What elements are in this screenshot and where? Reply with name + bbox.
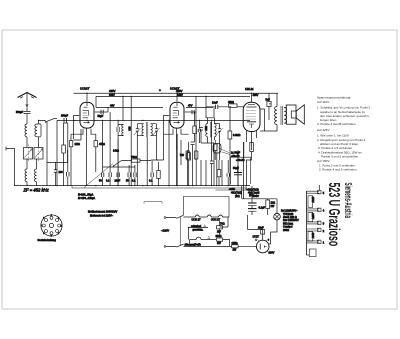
capacitor 150pF: [64, 118, 67, 123]
right text block: [317, 95, 371, 171]
AVC resistor: [213, 144, 217, 151]
svg-text:192V: 192V: [109, 94, 115, 97]
coil L2 secondary: [35, 124, 37, 137]
callout diagonal: [84, 164, 114, 189]
capacitor grid: [54, 170, 57, 172]
top rail 485V: [74, 92, 279, 94]
svg-text:43kΩ: 43kΩ: [228, 101, 234, 104]
svg-text:7: 7: [41, 225, 42, 227]
IFT1 core: [147, 122, 148, 137]
IFT2 right trimmer: [218, 129, 221, 131]
resistor mid2: [195, 151, 198, 159]
IFT1 connecting wires: [137, 124, 156, 136]
svg-text:0.1: 0.1: [149, 179, 153, 182]
svg-text:~220V: ~220V: [161, 229, 169, 233]
svg-text:1MΩ: 1MΩ: [75, 143, 80, 146]
wire: [57, 120, 64, 185]
svg-text:125Ω: 125Ω: [232, 242, 238, 245]
filter cap block outline: [231, 157, 251, 184]
svg-text:500pF: 500pF: [16, 111, 24, 114]
wire: [95, 96, 97, 107]
V1 side pins: [74, 116, 80, 140]
cap 0.1: [210, 161, 214, 164]
wire: [26, 137, 28, 147]
selector stub 4: [307, 209, 320, 211]
capacitor 50pF: [101, 110, 103, 114]
socket pin numbers: [41, 215, 62, 237]
mains switch: [177, 215, 184, 247]
resistor mid1: [186, 151, 189, 159]
capacitor C-g2: [192, 110, 194, 114]
svg-text:103V: 103V: [253, 194, 260, 198]
svg-text:150V: 150V: [311, 197, 314, 203]
tube V1 UCH2T envelope: [80, 102, 94, 128]
svg-text:Auf 150V:: Auf 150V:: [317, 159, 330, 163]
tube V2 internals: [174, 102, 178, 107]
B+ feed to transformer: [260, 93, 277, 131]
heater feed loop wire: [184, 197, 230, 218]
tube V1 internals: [84, 102, 88, 107]
svg-text:110V: 110V: [311, 233, 314, 239]
svg-text:1. Schaltbg. gez.Vo.Leitung vo: 1. Schaltbg. gez.Vo.Leitung von Punkt 2: [317, 105, 371, 109]
svg-text:2: 2: [58, 218, 59, 220]
capacitor row c4: [128, 173, 130, 178]
selector stub 5: [307, 191, 320, 193]
svg-text:M=106...220μA: M=106...220μA: [78, 197, 95, 200]
resistor low: [217, 170, 221, 177]
selector stub 3: [307, 222, 320, 224]
svg-text:75kΩ: 75kΩ: [131, 156, 137, 159]
svg-text:1. Wie unter 1. bei 110V: 1. Wie unter 1. bei 110V: [317, 133, 349, 137]
cap row top link wire: [103, 166, 135, 168]
svg-text:485V: 485V: [109, 89, 116, 93]
cap near v2: [198, 129, 200, 132]
more vertical wires to bus: [151, 120, 169, 185]
electrolytic can 2x50uF: [213, 144, 221, 154]
capacitor C-ant 500pF: [24, 112, 31, 114]
wire: [238, 245, 256, 247]
svg-text:550: 550: [204, 126, 207, 131]
svg-text:5: 5: [51, 235, 52, 237]
capacitor row c3: [117, 173, 119, 178]
tube V3 internals: [247, 107, 257, 122]
coil L1 primary: [25, 124, 27, 137]
svg-text:0.3MΩ: 0.3MΩ: [233, 134, 241, 137]
V1 bottom pins: [71, 128, 96, 185]
V2 bottom pins: [164, 128, 189, 185]
svg-text:5: 5: [268, 240, 270, 242]
svg-text:740: 740: [180, 154, 185, 157]
resistor R1 1M: [69, 141, 73, 147]
svg-text:690Ω: 690Ω: [216, 235, 222, 238]
wire: [39, 120, 46, 147]
ground bus: [14, 185, 250, 187]
svg-text:gezeichn.: gezeichn.: [193, 228, 204, 231]
svg-text:2W: 2W: [271, 205, 275, 208]
wire: [222, 142, 244, 199]
IFT1 right trimmer: [155, 129, 158, 131]
svg-text:50: 50: [99, 179, 102, 182]
svg-text:3. Punkte 2 u.5 verbinden: 3. Punkte 2 u.5 verbinden: [318, 146, 353, 150]
wire: [214, 123, 219, 125]
resistor 75k horizontal: [132, 159, 141, 162]
long vertical wire: [130, 96, 132, 185]
left wire to edge: [6, 149, 15, 186]
svg-text:3: 3: [323, 223, 325, 226]
svg-text:76Ω: 76Ω: [220, 223, 225, 226]
svg-text:8: 8: [43, 218, 44, 220]
wires gang to coils: [27, 159, 37, 186]
svg-text:K=106...50μA: K=106...50μA: [78, 193, 94, 196]
svg-text:ablöten und an Punkt 3 löten.: ablöten und an Punkt 3 löten.: [320, 142, 359, 146]
svg-text:0.1: 0.1: [132, 179, 136, 182]
resistor R2: [94, 141, 98, 147]
svg-text:100: 100: [59, 171, 64, 174]
node dots on bus: [74, 120, 75, 121]
callout to 2x50uF: [218, 148, 229, 153]
selector stub 2: [307, 229, 320, 231]
svg-text:4: 4: [58, 233, 59, 235]
IFT2 primary winding: [206, 124, 208, 137]
wave switch S1: [46, 118, 55, 122]
capacitor row c5: [134, 173, 136, 178]
voltage selector: [306, 191, 308, 255]
svg-text:47V: 47V: [188, 104, 193, 107]
heater row 2: [190, 239, 197, 241]
selector box b: [308, 212, 313, 221]
IFT2 core: [210, 122, 211, 137]
svg-text:2. Punkte 2,3und5 verbinden.: 2. Punkte 2,3und5 verbinden.: [317, 122, 356, 126]
svg-text:2W: 2W: [217, 230, 221, 233]
tube V3 UBL21 envelope: [243, 102, 260, 131]
svg-text:3: 3: [61, 225, 62, 227]
cathode resistor V3: [250, 143, 254, 152]
svg-text:+50+50: +50+50: [236, 159, 245, 162]
svg-text:20nF: 20nF: [258, 226, 264, 229]
wire: [248, 215, 263, 230]
shielded wire callout line: [144, 202, 162, 204]
svg-text:47kΩ: 47kΩ: [99, 143, 105, 146]
capacitor row c6: [151, 173, 153, 178]
svg-text:2. Punkte 4 und 5 verbinden.: 2. Punkte 4 und 5 verbinden.: [319, 168, 358, 172]
svg-text:46V: 46V: [110, 104, 115, 107]
svg-text:Spannungsumschaltung:: Spannungsumschaltung:: [317, 95, 351, 99]
second bus line: [72, 187, 247, 189]
selector foot: [307, 254, 310, 256]
output transformer secondary: [284, 108, 286, 124]
svg-text:1: 1: [323, 242, 325, 245]
grid return wire: [47, 150, 68, 162]
oscillator cap: [67, 172, 69, 177]
tube V2 UCH2T envelope: [170, 102, 184, 128]
coil L5: [122, 124, 124, 135]
speaker: [286, 105, 296, 124]
svg-text:465V: 465V: [253, 94, 259, 97]
svg-text:UBL21: UBL21: [245, 87, 254, 91]
tube socket diagram: [41, 215, 62, 236]
IFT1 left trimmer: [136, 129, 139, 131]
rotated maker title: [325, 183, 354, 247]
resistor box 0.3M: [228, 131, 232, 139]
rectifier tube UY2T: [256, 240, 269, 253]
svg-text:550: 550: [128, 127, 131, 132]
wire: [251, 186, 253, 203]
svg-text:4: 4: [323, 210, 325, 213]
second rail: [96, 95, 250, 97]
svg-text:1W: 1W: [217, 242, 221, 245]
mains terminals: [164, 217, 166, 219]
selector stub 1: [307, 241, 320, 243]
svg-text:150pF: 150pF: [61, 115, 69, 118]
variable capacitor gang section 2: [34, 148, 43, 160]
svg-text:Meßinstrument: 20000Ω/V: Meßinstrument: 20000Ω/V: [88, 211, 118, 214]
capacitor row c2: [109, 173, 111, 178]
capacitor 100pF pair: [199, 128, 203, 131]
wire: [26, 114, 28, 124]
IFT1 secondary winding: [151, 124, 153, 136]
main signal bus: [44, 119, 250, 121]
V2 side pins: [164, 116, 170, 141]
V3 bottom pins: [247, 130, 257, 150]
svg-text:185V: 185V: [177, 94, 183, 97]
node dot: [38, 120, 39, 121]
electrolytic caps block: [248, 202, 257, 204]
wire: [318, 185, 320, 190]
heater row 1: [184, 216, 196, 218]
heater mid row: [189, 227, 209, 229]
svg-text:+: +: [159, 89, 161, 93]
svg-text:2: 2: [323, 230, 325, 233]
wire: [46, 122, 48, 186]
svg-text:125V: 125V: [311, 213, 314, 219]
svg-text:Siemens-Austria: Siemens-Austria: [342, 183, 354, 219]
svg-text:260Ω: 260Ω: [283, 229, 289, 232]
svg-text:2W: 2W: [233, 249, 237, 252]
output transformer primary: [275, 107, 277, 125]
svg-text:50pF: 50pF: [98, 115, 104, 118]
svg-text:ZF = 452 kHz: ZF = 452 kHz: [23, 188, 50, 193]
screen rail 46V: [96, 106, 163, 108]
selector box a: [308, 196, 313, 208]
tuned circuit capacitor: [117, 127, 119, 132]
svg-text:200V: 200V: [269, 251, 275, 254]
junction dots row: [142, 120, 143, 121]
wire riser: [73, 129, 81, 140]
svg-text:10nF: 10nF: [115, 179, 121, 182]
resistor R-g 43k: [229, 104, 238, 107]
capacitor row c1: [102, 173, 104, 178]
svg-text:UCH 2T: UCH 2T: [192, 219, 202, 222]
svg-text:1: 1: [256, 240, 258, 242]
svg-text:UCH 2T: UCH 2T: [211, 219, 221, 222]
svg-text:6: 6: [43, 233, 44, 235]
selector box c: [308, 232, 313, 241]
resistor 740: [187, 153, 191, 160]
rail feeders: [123, 96, 214, 120]
svg-text:10nF: 10nF: [212, 102, 218, 105]
mains bottom wire: [184, 245, 232, 247]
svg-text:(2A): (2A): [235, 195, 240, 198]
svg-text:1: 1: [51, 215, 52, 217]
speaker leads: [284, 108, 286, 124]
oscillator section resistor: [62, 145, 66, 153]
coupling cap 12uF: [191, 142, 195, 145]
svg-text:rt/bs gez(Pol?): rt/bs gez(Pol?): [185, 243, 201, 246]
svg-text:523 U Grazioso: 523 U Grazioso: [325, 183, 342, 247]
svg-text:0.1: 0.1: [106, 179, 110, 182]
svg-text:UY2T: UY2T: [253, 235, 260, 238]
gang dashed link: [29, 145, 39, 163]
pilot lamp: [274, 213, 281, 220]
svg-text:Auf 125V:: Auf 125V:: [317, 128, 330, 132]
coil L4: [35, 169, 37, 182]
svg-text:Punkte 3 und 5 anschließen.: Punkte 3 und 5 anschließen.: [321, 155, 359, 159]
svg-text:Meßwerte bei 220V~: Meßwerte bei 220V~: [90, 215, 114, 218]
variable capacitor gang section 1: [24, 148, 33, 160]
svg-text:UCH2T: UCH2T: [170, 87, 180, 91]
screen resistor v2: [193, 126, 197, 134]
svg-text:5: 5: [323, 192, 325, 195]
bus junction dots: [131, 185, 132, 186]
resistor bottom: [157, 171, 160, 179]
svg-text:Auf 110V:: Auf 110V:: [317, 100, 330, 104]
svg-text:Sockelschaltung: Sockelschaltung: [38, 239, 57, 242]
svg-text:UCH2T: UCH2T: [80, 87, 90, 91]
UY2T right pin: [269, 243, 271, 245]
IFT1 primary winding: [142, 124, 144, 136]
transformer core: [281, 106, 282, 125]
antenna: [18, 93, 37, 98]
IFT2 secondary winding: [214, 124, 216, 137]
antenna lead wire: [26, 93, 28, 112]
svg-text:0.1μF: 0.1μF: [259, 207, 266, 210]
vertical feeders v1 area: [103, 112, 119, 167]
resistor 1k 2W: [266, 200, 270, 209]
wire: [118, 120, 123, 185]
anode return wire: [260, 109, 265, 131]
coil L3: [25, 169, 27, 182]
cap low: [227, 173, 229, 176]
